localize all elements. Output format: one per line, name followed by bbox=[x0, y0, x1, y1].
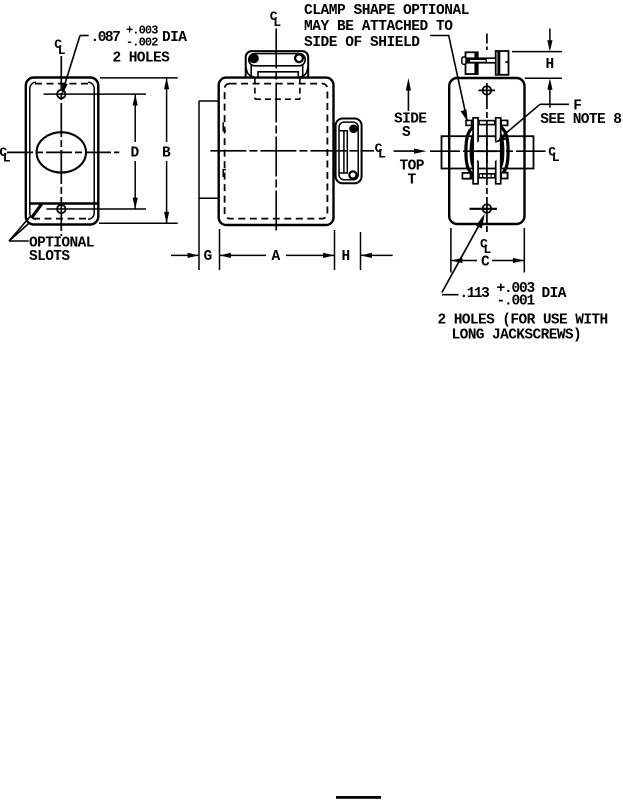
centerline symbol bottom bbox=[480, 237, 491, 258]
svg-text:SEE NOTE 8: SEE NOTE 8 bbox=[540, 112, 621, 128]
label SIDE S bbox=[394, 112, 427, 142]
centerline symbol right bbox=[548, 144, 559, 165]
horizontal centerline bbox=[430, 150, 546, 152]
svg-text:T: T bbox=[408, 173, 417, 189]
barrel opening ellipse bbox=[37, 132, 86, 172]
top assembly right bracket divider 1 bbox=[497, 51, 500, 75]
svg-text:MAY BE ATTACHED TO: MAY BE ATTACHED TO bbox=[304, 19, 453, 35]
label OPTIONAL SLOTS bbox=[29, 235, 94, 264]
F dash line bbox=[540, 103, 569, 105]
saddle bar bbox=[442, 136, 534, 168]
svg-text:2 HOLES (FOR USE WITH: 2 HOLES (FOR USE WITH bbox=[438, 312, 608, 328]
G/A/H extension tick box right bbox=[334, 230, 336, 270]
label B bbox=[162, 145, 171, 161]
top clamp inner stadium bbox=[249, 54, 305, 66]
centerline symbol right bbox=[375, 141, 386, 162]
horizontal centerline bbox=[7, 151, 119, 153]
side clamp channel inner line bbox=[343, 131, 345, 173]
G dimension tail line bbox=[171, 254, 199, 256]
svg-text:L: L bbox=[58, 43, 66, 58]
top assembly left bracket divider bbox=[474, 52, 477, 74]
svg-text:L: L bbox=[378, 146, 386, 161]
top assembly screw head bbox=[462, 57, 466, 64]
clamp top screw head left bbox=[465, 120, 472, 127]
svg-text:CLAMP SHAPE OPTIONAL: CLAMP SHAPE OPTIONAL bbox=[304, 3, 469, 19]
top assembly screw shaft dark portion bbox=[466, 58, 487, 63]
G arrow right bbox=[188, 253, 199, 258]
horizontal centerline bbox=[210, 150, 374, 152]
dimension D line upper bbox=[134, 94, 136, 142]
label H bbox=[546, 57, 554, 73]
clamp left saddle band inner bbox=[471, 129, 477, 173]
hidden inner wall (dashed rounded rect) bbox=[225, 84, 328, 219]
shield body outline bbox=[219, 78, 334, 225]
top assembly screw shaft bbox=[464, 58, 496, 63]
dimension D line lower bbox=[134, 161, 136, 209]
dimension B line upper bbox=[166, 78, 168, 142]
optional slots leader to corner bbox=[9, 224, 29, 242]
top clamp inner side left bbox=[250, 65, 252, 78]
B arrow down bbox=[164, 212, 169, 223]
svg-text:SLOTS: SLOTS bbox=[29, 249, 70, 265]
top clamp fillet left bbox=[246, 68, 253, 77]
cable opening crosshair bbox=[477, 150, 498, 152]
C dimension line right bbox=[492, 260, 524, 262]
mounting plane vertical line bbox=[198, 101, 200, 270]
label G bbox=[204, 249, 212, 265]
top clamp fillet right bbox=[300, 68, 307, 77]
leader arrowhead at top hole bbox=[62, 83, 68, 96]
svg-text:C: C bbox=[481, 255, 490, 271]
A dimension line left bbox=[220, 254, 267, 256]
top assembly right bracket bbox=[496, 51, 509, 75]
top hole center line / D extension top bbox=[44, 93, 147, 95]
shield inner wall right side bbox=[88, 82, 94, 219]
H dimension tail line right bbox=[361, 254, 393, 256]
B extension line bottom bbox=[99, 222, 178, 224]
hole size callout text bbox=[91, 24, 188, 67]
clamp optional leader line bbox=[430, 36, 465, 112]
F leader diagonal bbox=[500, 104, 541, 138]
clamp right plate bbox=[496, 118, 501, 184]
D arrow down bbox=[133, 198, 138, 209]
svg-text:DIA: DIA bbox=[162, 30, 187, 46]
jackscrew hole leader tail bbox=[442, 294, 459, 296]
leader dash before .087 bbox=[80, 35, 89, 37]
svg-text:H: H bbox=[546, 57, 554, 73]
svg-text:H: H bbox=[342, 249, 350, 265]
latch notch lower bbox=[223, 170, 226, 177]
leader line to top hole bbox=[64, 36, 80, 88]
tongue hidden left (dashed) bbox=[254, 78, 256, 100]
jackscrew hole leader arrowhead bbox=[476, 214, 485, 229]
top hole cross horizontal bbox=[479, 89, 496, 91]
B extension line top bbox=[100, 77, 178, 79]
mounting plane stub top bbox=[199, 100, 220, 102]
vertical centerline bbox=[60, 56, 62, 236]
jackscrew hole leader diagonal bbox=[442, 224, 480, 293]
SIDE S arrow up bbox=[407, 84, 409, 111]
svg-text:2 HOLES: 2 HOLES bbox=[113, 50, 171, 66]
label H bottom bbox=[342, 249, 350, 265]
label F / SEE NOTE 8 bbox=[540, 99, 621, 129]
side clamp inner outline bbox=[339, 122, 358, 180]
svg-text:L: L bbox=[273, 15, 281, 30]
H extension line upper bbox=[512, 51, 562, 53]
top clamp bracket outline bbox=[246, 51, 309, 78]
latch notch upper bbox=[223, 122, 226, 130]
A dimension line right bbox=[286, 254, 335, 256]
side clamp screw hole top (filled) bbox=[349, 125, 358, 134]
C extension line right bbox=[523, 228, 525, 273]
H arrow left bbox=[361, 253, 372, 258]
svg-text:-.002: -.002 bbox=[126, 36, 158, 50]
vertical centerline bbox=[486, 83, 488, 234]
bottom mounting hole bbox=[57, 205, 65, 213]
top clamp inner side right bbox=[302, 65, 304, 78]
tongue visible top bbox=[258, 72, 298, 78]
A arrow left bbox=[220, 253, 231, 258]
H arrow down from above bbox=[549, 29, 551, 46]
bottom flange thick line bbox=[30, 202, 98, 205]
top assembly left bracket bbox=[466, 52, 478, 74]
H extension line lower bbox=[525, 77, 562, 79]
clamp optional leader arrowhead bbox=[461, 109, 468, 122]
clamp top screw shaft bbox=[478, 120, 495, 126]
C arrow right bbox=[513, 258, 524, 263]
clamp left saddle band outer bbox=[466, 126, 474, 176]
D arrow up bbox=[133, 94, 138, 105]
svg-text:DIA: DIA bbox=[542, 286, 567, 302]
vertical centerline stub above bbox=[486, 34, 488, 51]
dimension B line lower bbox=[166, 161, 168, 223]
top mounting hole bbox=[483, 86, 492, 95]
tongue hidden bottom (dashed) bbox=[255, 98, 300, 100]
svg-text:G: G bbox=[204, 249, 212, 265]
clamp right saddle band inner bbox=[497, 129, 503, 173]
clamp bottom screw head left bbox=[462, 172, 473, 180]
bottom hole center line / D extension bottom bbox=[47, 208, 147, 210]
H arrow up from below bbox=[549, 85, 551, 108]
TOP T arrow right bbox=[394, 150, 420, 152]
svg-text:.087: .087 bbox=[91, 30, 121, 46]
label C bbox=[481, 255, 490, 271]
page mark bbox=[336, 796, 381, 799]
svg-text:LONG JACKSCREWS): LONG JACKSCREWS) bbox=[452, 327, 582, 343]
svg-text:B: B bbox=[162, 145, 171, 161]
B arrow up bbox=[164, 78, 169, 89]
optional slot wedge bbox=[30, 203, 45, 218]
G/A/H extension tick box left bbox=[219, 229, 221, 270]
vertical centerline bbox=[275, 29, 277, 233]
optional slots leader horizontal bbox=[9, 240, 29, 242]
G/A/H extension tick clamp right bbox=[360, 232, 362, 270]
hidden edge top (dashed) bbox=[35, 83, 89, 85]
mounting plane stub bottom bbox=[199, 197, 220, 199]
side clamp outline bbox=[336, 119, 362, 184]
svg-text:SIDE OF SHIELD: SIDE OF SHIELD bbox=[304, 35, 420, 51]
shield inner wall left side bbox=[30, 82, 36, 219]
side clamp screw hole bottom (ring) bbox=[349, 171, 356, 178]
svg-text:A: A bbox=[272, 249, 281, 265]
svg-text:L: L bbox=[3, 150, 11, 165]
top assembly right bracket divider 2 bbox=[505, 61, 508, 63]
label TOP T bbox=[400, 159, 425, 189]
clamp bottom screw head right bbox=[500, 172, 508, 180]
side clamp channel bbox=[339, 131, 347, 173]
hidden edge bottom (dashed) bbox=[33, 218, 91, 220]
centerline symbol top bbox=[270, 9, 281, 30]
centerline symbol top bbox=[54, 37, 65, 58]
top mounting hole bbox=[57, 90, 65, 98]
optional slots leader to wedge bbox=[9, 216, 31, 242]
centerline symbol left bbox=[0, 145, 11, 166]
clamp bottom screw thread marks bbox=[483, 174, 492, 177]
top clamp screw hole left (filled) bbox=[249, 54, 259, 64]
svg-text:S: S bbox=[402, 125, 411, 141]
svg-text:SIDE: SIDE bbox=[394, 112, 427, 128]
clamp left plate bbox=[473, 118, 478, 184]
C arrow left bbox=[451, 258, 462, 263]
svg-text:.113: .113 bbox=[460, 286, 490, 302]
F leader arrowhead bbox=[494, 136, 506, 143]
C dimension line left bbox=[451, 260, 477, 262]
clamp top screw head right bbox=[500, 120, 508, 127]
bottom hole cross horizontal bbox=[470, 208, 498, 210]
label A bbox=[272, 249, 281, 265]
clamp bottom screw shaft bbox=[478, 173, 495, 179]
svg-text:-.001: -.001 bbox=[497, 293, 536, 309]
shield outer outline bbox=[26, 78, 99, 225]
shield rear outline bbox=[449, 78, 524, 224]
bottom mounting hole bbox=[483, 204, 492, 213]
svg-text:L: L bbox=[552, 150, 560, 165]
C extension line left bbox=[450, 228, 452, 273]
label D bbox=[131, 145, 140, 161]
svg-text:D: D bbox=[131, 145, 140, 161]
clamp right saddle band outer bbox=[500, 126, 508, 176]
tongue hidden right (dashed) bbox=[299, 78, 301, 100]
top clamp screw hole right (ring) bbox=[295, 54, 303, 62]
A arrow right bbox=[323, 253, 334, 258]
cable opening bbox=[474, 138, 500, 164]
